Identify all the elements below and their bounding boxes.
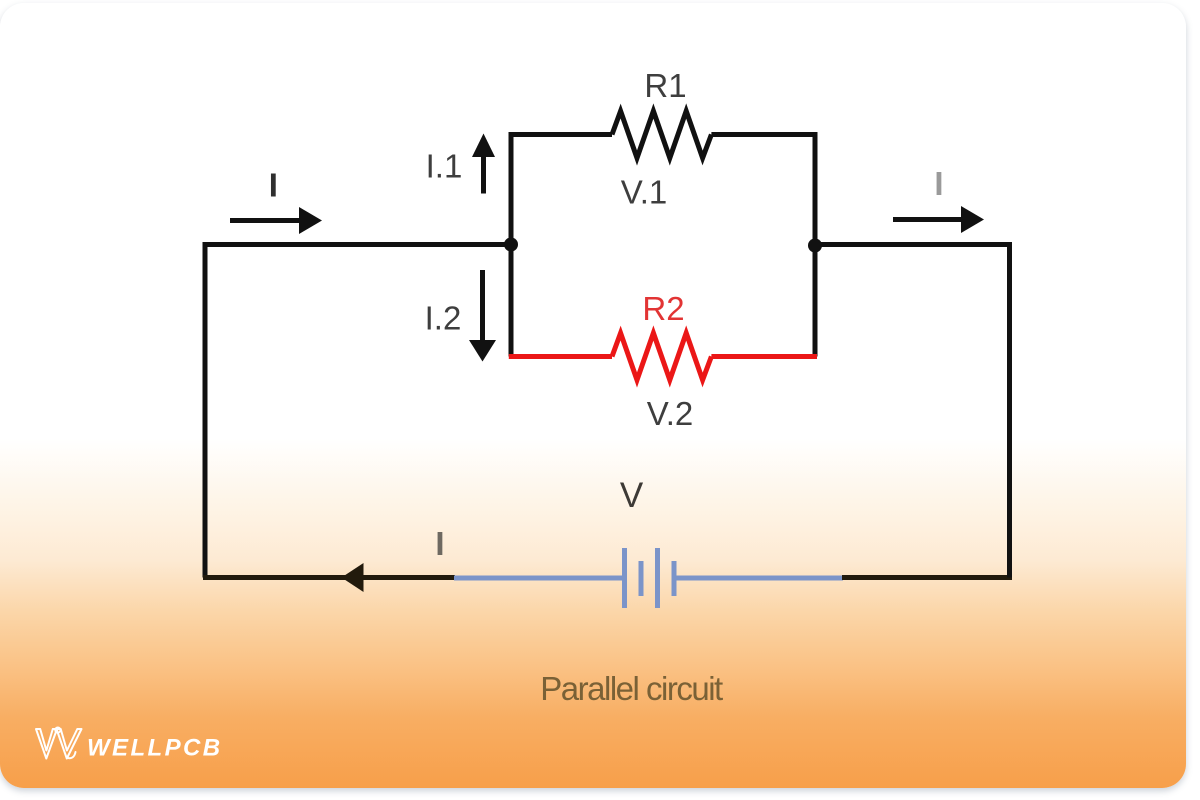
wire: red left lead of R2 (509, 354, 612, 359)
wire: right vertical to bottom branch (813, 245, 818, 357)
wire: top branch with R1 leads (511, 135, 612, 245)
node: left junction dot (504, 238, 518, 252)
logo WELLPCB icon: node circle (55, 727, 60, 732)
svg-text:R1: R1 (644, 67, 686, 104)
wire: bottom right dark segment (842, 575, 1012, 580)
wire: left vertical to bottom branch (509, 245, 514, 357)
wire: red right lead of R2 (711, 354, 817, 359)
svg-text:V.2: V.2 (647, 395, 694, 432)
svg-text:I: I (269, 167, 278, 204)
current arrow I.1 (up) (481, 153, 486, 194)
svg-text:Parallel circuit: Parallel circuit (540, 670, 723, 707)
battery plate short 2 (672, 561, 677, 596)
svg-text:I.2: I.2 (425, 300, 462, 337)
arrow on bottom wire pointing left (342, 563, 364, 592)
resistor R2 zigzag (red) (612, 333, 711, 380)
current arrow I.2 (down) (480, 270, 485, 342)
current arrow I (top-right) (893, 217, 963, 222)
svg-text:I: I (934, 165, 943, 202)
svg-text:V: V (620, 476, 644, 515)
battery plate short 1 (639, 561, 644, 596)
resistor R1 zigzag (612, 111, 711, 158)
svg-text:I: I (435, 525, 444, 562)
logo icon: J curl at right V bottom (67, 752, 76, 758)
battery left blue lead (454, 576, 622, 581)
svg-text:V.1: V.1 (621, 174, 668, 211)
node: right junction dot (808, 239, 822, 253)
svg-text:WELLPCB: WELLPCB (87, 735, 222, 762)
svg-text:R2: R2 (642, 290, 684, 327)
battery plate long 2 (655, 548, 660, 608)
wire: outer loop right vertical + top-right horizontal (815, 245, 1010, 578)
wire: outer loop left (top-left horizontal + left vertical) (205, 245, 511, 578)
battery plate long 1 (622, 548, 627, 608)
wire: bottom left dark segment (203, 575, 455, 580)
svg-text:I.1: I.1 (426, 148, 463, 185)
logo WELLPCB icon: left V (36, 729, 57, 759)
logo WELLPCB icon: right V (57, 729, 82, 759)
current arrow I (top-left) (230, 218, 301, 223)
wire: top branch right lead (711, 135, 815, 245)
battery right blue lead (676, 576, 843, 581)
